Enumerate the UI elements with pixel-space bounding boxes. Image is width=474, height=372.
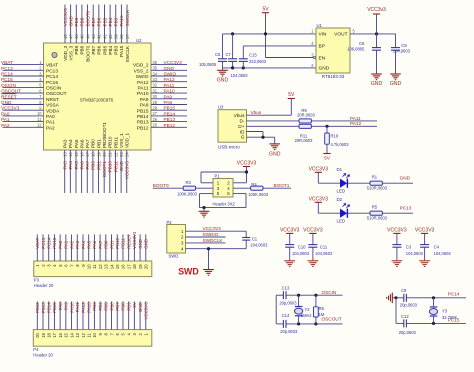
wire net PA2 to U2 pin 12 [3,126,44,128]
svg-text:10: 10 [92,332,97,337]
svg-text:14: 14 [68,152,73,157]
svg-text:PB3: PB3 [114,45,119,54]
resistor R9 [299,119,311,123]
svg-text:ID: ID [240,129,245,135]
svg-text:R10: R10 [331,133,339,138]
ground symbol below C11 [308,261,319,267]
capacitor C11 [308,245,317,261]
pin name VDD_2 [133,63,149,69]
pin number 7 [39,94,42,99]
svg-text:VCC3V3: VCC3V3 [303,228,323,234]
pin number 15 of P3 [115,264,120,269]
svg-text:RESET: RESET [126,234,131,249]
svg-text:PB12: PB12 [137,125,149,131]
svg-text:VSSA: VSSA [46,103,60,109]
ground symbol below C10 [284,261,295,267]
wire P2 pin2 SWDIO [186,236,226,238]
capacitor C13 [283,291,286,299]
wire OSCOUT rail [276,323,342,325]
net label PC13 at P3 [41,237,46,249]
svg-text:P3: P3 [34,278,40,283]
wire net PB6 to U2 pin 42 [98,5,100,44]
wire P3 pin 19 [139,234,141,261]
pin number 9 [39,106,42,111]
net label RESET at P3 [126,234,131,249]
wire P3 pin 9 [82,234,84,261]
net label PA3 [63,161,68,170]
pin name PA7 [85,139,90,148]
net label PC15 [1,77,13,82]
wire R3 to P1 pin3 [196,187,213,189]
svg-text:VCC3V3: VCC3V3 [309,197,329,203]
svg-text:PA12: PA12 [81,302,86,313]
pin name VSS_3 [68,45,73,60]
svg-text:D2: D2 [337,197,343,202]
svg-text:GND: GND [119,160,124,171]
svg-text:PA2: PA2 [69,240,74,249]
svg-text:36: 36 [153,60,158,65]
svg-text:13: 13 [63,152,68,157]
svg-text:RESET: RESET [1,94,17,99]
net label BOOT0 [85,10,90,26]
svg-text:45: 45 [80,34,85,39]
svg-text:PC13: PC13 [46,68,58,74]
pin number 18 of P3 [132,264,137,269]
svg-text:PB0: PB0 [104,240,109,249]
svg-text:C1: C1 [252,237,258,242]
svg-text:11: 11 [37,117,42,122]
pin number 12 [37,123,42,128]
net label PB9 at P4 [126,302,131,311]
label C6 [359,41,365,46]
label R9 [301,108,307,113]
net label OSCIN [322,290,337,295]
svg-text:PB10: PB10 [108,161,113,173]
svg-text:46: 46 [74,34,79,39]
label R1 [372,175,378,180]
svg-text:VIN: VIN [319,31,328,37]
power symbol VCC3V3 at D2 [309,197,329,214]
net label PA7 at P3 [98,240,103,249]
pin name PB6 [97,45,102,54]
net label PA12 at P4 [81,302,86,313]
svg-text:43: 43 [91,34,96,39]
value 20p,0603 for C14 [280,329,298,334]
svg-text:PB8: PB8 [80,45,85,54]
pin name PB3 [114,45,119,54]
svg-text:C3: C3 [406,244,412,249]
net label BOOT1 [274,183,290,188]
pin number 29 [153,100,158,105]
svg-text:G: G [241,135,245,141]
ground label GND USB [269,151,281,157]
svg-text:1M: 1M [319,312,325,317]
pin number 19 [96,152,101,157]
pin name VDD_1 [125,132,130,148]
net label PA8 [164,100,173,105]
net label PA9 [164,94,173,99]
svg-text:BOOT0: BOOT0 [85,45,90,61]
pin number 34 [153,71,158,76]
pin number 13 of P3 [104,264,109,269]
svg-text:GND: GND [138,239,143,249]
net label BOOT0 [153,183,169,188]
text SWD red [178,266,199,276]
pin number 4 [311,41,314,46]
svg-text:PA0: PA0 [1,111,10,116]
label C15 [249,53,257,58]
svg-text:VBAT: VBAT [1,60,13,65]
pin number 3 of P3 [47,264,52,267]
svg-text:PB0: PB0 [91,139,96,148]
net label PB15 [164,106,176,111]
pin number 2 of P1 [227,180,230,185]
value 104,0603 for C8 [393,48,411,53]
svg-text:20: 20 [102,152,107,157]
net label PA11 [164,83,175,88]
svg-text:15: 15 [74,152,79,157]
svg-text:PB10: PB10 [115,238,120,249]
svg-text:20p,0603: 20p,0603 [279,301,297,306]
wire ID down to G net [247,132,264,138]
svg-text:Header 20: Header 20 [33,352,53,357]
svg-text:18: 18 [47,332,52,337]
pin number 1 [311,29,314,34]
pin name PA8 [140,103,149,109]
wire P4 pin 21 [36,301,38,329]
svg-text:D-: D- [239,119,244,125]
svg-text:106,0805: 106,0805 [347,46,365,51]
net label PB1 [96,161,101,170]
pin name PA15 [119,45,124,57]
svg-text:PA9: PA9 [164,94,173,99]
net label PB7 at P4 [115,302,120,311]
svg-text:25: 25 [153,123,158,128]
wire P4 pin 23 [48,301,50,329]
pin number 38 [119,34,124,39]
wire P3 pin 18 [133,234,135,261]
svg-text:23: 23 [119,152,124,157]
wire P3 pin 3 [48,234,50,261]
LED D1 [340,174,350,188]
wire VCC3V3 to D1 [318,182,340,184]
svg-text:20: 20 [35,332,40,337]
net label PC14 [448,292,460,297]
wire net SWIO from U2 pin 34 [151,75,187,77]
pin number 16 [79,152,84,157]
svg-text:510R,0603: 510R,0603 [367,185,388,190]
svg-text:PA5: PA5 [86,240,91,249]
net label PB6 at P4 [109,302,114,311]
svg-text:PB14: PB14 [137,114,149,120]
pin number 40 [108,34,113,39]
ground label GND below C8 [390,81,402,87]
header P3 body [34,261,152,277]
wire R9 to PA11 [312,120,378,122]
svg-text:PA11: PA11 [75,302,80,313]
pin number 3 of P1 [217,186,220,191]
junction dot on D+ line [325,125,328,128]
resistor R11 [299,124,311,128]
wire P3 pin 5 [59,234,61,261]
svg-text:C11: C11 [320,244,328,249]
svg-text:VCC3v3: VCC3v3 [367,7,386,13]
wire net VBAT to U2 pin 1 [3,64,44,66]
svg-text:PB5: PB5 [102,17,107,26]
label R3 [186,180,192,185]
svg-text:PA9: PA9 [140,97,149,103]
svg-text:PB10: PB10 [108,136,113,148]
net label PC15 [448,317,460,322]
designator U1 [317,23,323,28]
pin name SWIO [136,74,149,80]
wire P1 pin1 loop [201,172,247,183]
svg-text:C14: C14 [282,313,290,318]
svg-text:PB1: PB1 [109,240,114,249]
svg-text:PA10: PA10 [164,89,176,94]
ground symbol GND near regulator [217,68,228,76]
net label GND at P4 [138,302,143,312]
net label GND at P3 [144,239,149,249]
svg-text:GND: GND [390,81,402,87]
pin name PA6 [79,139,84,148]
resistor R1 [370,181,382,185]
svg-text:GND: GND [164,66,175,71]
value 20R,0603 for R11 [295,138,313,143]
svg-text:18: 18 [91,152,96,157]
svg-text:Header 3X2: Header 3X2 [213,201,236,206]
value 105,0805 [199,62,217,67]
label Y2 [305,307,311,312]
svg-text:VCC3V3: VCC3V3 [144,302,149,320]
net label PA12 [164,77,176,82]
header P4 body [33,330,152,347]
svg-text:VCC3V3: VCC3V3 [237,161,257,167]
svg-text:17: 17 [126,264,131,269]
net label PB12 at P4 [35,302,40,313]
svg-text:OSCOUT: OSCOUT [322,316,342,321]
svg-text:PA1: PA1 [46,120,55,126]
net label 5V at P4 [132,302,137,307]
pin number 15 of P4 [64,332,69,337]
wire net GND from U2 pin 23 [120,150,122,193]
pin number 19 of P4 [41,332,46,337]
svg-text:20R,0603: 20R,0603 [295,138,313,143]
value 104,0603 for C1 [250,243,268,248]
header P2 body [167,225,186,254]
pin name BOOT0 [85,45,90,61]
svg-text:42: 42 [97,34,102,39]
svg-text:10: 10 [86,264,91,269]
svg-text:PC14: PC14 [1,72,13,77]
svg-text:14: 14 [69,332,74,337]
svg-text:VCC3V3: VCC3V3 [132,231,137,249]
pin number 12 of P3 [98,264,103,269]
svg-text:PA3: PA3 [63,139,68,148]
net label VCC3V3 [63,8,68,27]
pin name PB5 [102,45,107,54]
svg-text:PA4: PA4 [68,161,73,170]
wire P4 pin 25 [59,301,61,329]
pin number 18 [91,152,96,157]
svg-text:VCC3V3: VCC3V3 [415,228,435,234]
pin number 4 of P3 [52,264,57,267]
svg-text:PA12: PA12 [137,80,149,86]
pin number 1 of P2 [181,229,184,234]
svg-text:BOOT0: BOOT0 [85,10,90,26]
pin number 4 [39,77,42,82]
svg-text:PB4: PB4 [108,45,113,54]
svg-text:VCC3V3: VCC3V3 [125,161,130,180]
wire OSCIN rail [276,294,342,296]
svg-text:13: 13 [104,264,109,269]
svg-text:PA8: PA8 [58,302,63,311]
label C5 [215,52,221,57]
svg-text:37: 37 [125,34,130,39]
wire net PB11 from U2 pin 22 [114,150,116,193]
wire P4 pin 37 [128,301,130,329]
svg-text:28: 28 [153,106,158,111]
svg-text:PA9: PA9 [64,302,69,311]
capacitor C7 [228,34,237,68]
svg-text:PB6: PB6 [97,45,102,54]
net label PA10 at P4 [69,302,74,313]
label C9 [401,288,407,293]
ground symbol P2 [203,270,214,276]
wire P1 pin2 [233,182,247,184]
svg-text:VOUT: VOUT [334,31,347,37]
pin number 1 of P3 [35,264,40,267]
capacitor C4 [420,245,429,261]
ground symbol P1 [199,208,210,217]
svg-text:VCC3V3: VCC3V3 [164,60,183,65]
svg-text:Y3: Y3 [442,309,448,314]
wire net PA5 from U2 pin 15 [75,150,77,193]
wire P3 pin 2 [42,234,44,261]
svg-text:VDD_3: VDD_3 [63,45,68,61]
svg-text:GND: GND [1,100,12,105]
wire net GND to U2 pin 47 [70,5,72,44]
capacitor C5 [218,34,227,68]
pin number 46 [74,34,79,39]
svg-text:Vbus: Vbus [234,113,246,119]
pin number 7 of P3 [69,264,74,267]
svg-text:PB3: PB3 [114,17,119,26]
wire net VCC3V3 to U2 pin 9 [3,109,44,111]
svg-text:12: 12 [98,264,103,269]
svg-text:VBAT: VBAT [46,63,58,69]
net label PB12 [164,123,176,128]
svg-text:GND: GND [144,239,149,249]
svg-text:41: 41 [102,34,107,39]
pin number 45 [80,34,85,39]
svg-text:R5: R5 [372,205,378,210]
net label GND [68,15,73,26]
pin name PA2 [46,125,55,131]
svg-text:PB12: PB12 [164,123,176,128]
net label PB1 at P3 [109,240,114,249]
net label PA15 at P4 [86,302,91,313]
net label VBAT [1,60,13,65]
svg-text:C8: C8 [401,43,407,48]
svg-text:PA10: PA10 [69,302,74,313]
pin name PA12 [137,80,149,86]
pin number 10 [37,111,42,116]
wire BP to C15 [243,46,316,59]
pin name PA9 [140,97,149,103]
svg-text:47: 47 [68,34,73,39]
pin name PB14 [137,114,149,120]
junction dot P1 ground [202,206,205,209]
svg-text:VDD_1: VDD_1 [125,132,130,148]
net label PB14 [164,111,176,116]
svg-text:PC14: PC14 [448,292,460,297]
svg-text:104,0603: 104,0603 [434,251,452,256]
svg-text:PB5: PB5 [104,302,109,311]
value Header 20 for P4 [33,352,53,357]
wire net VCC3V3 from U2 pin 24 [126,150,128,193]
wire net PA1 to U2 pin 11 [3,121,44,123]
svg-text:PA4: PA4 [81,240,86,249]
net label PA11 [350,116,361,121]
net label GND [1,100,12,105]
svg-text:PC13: PC13 [1,66,13,71]
svg-text:PC14: PC14 [46,74,58,80]
capacitor C15 [239,59,248,68]
crystal Y3 [429,298,437,324]
wire net PA3 from U2 pin 13 [64,150,66,193]
svg-text:C6: C6 [359,41,365,46]
svg-text:P4: P4 [33,347,39,352]
value 104,0603 for C7 [231,73,249,78]
wire P4 pin 30 [88,301,90,329]
svg-text:STM32F103C8T6: STM32F103C8T6 [80,97,114,102]
svg-text:104,0603: 104,0603 [250,243,268,248]
pin number 2 of P4 [138,332,143,335]
pin name PB10 [108,136,113,148]
pin name PB0 [91,139,96,148]
LED D2 [340,204,350,218]
wire net PB1 from U2 pin 19 [98,150,100,193]
pin number 20 of P3 [144,264,149,269]
svg-text:PC15: PC15 [1,77,13,82]
wire P2 pin4 to ground [186,249,247,269]
pin number 6 of P4 [115,332,120,335]
svg-text:GND: GND [68,15,73,26]
capacitor C10 [285,245,294,261]
wire VCC3V3 to D2 [318,212,340,214]
svg-text:48: 48 [63,34,68,39]
junction dots crystal 1 [297,294,318,326]
net label SWCLK [125,9,130,27]
wire net PB14 from U2 pin 27 [151,115,187,117]
pin number 47 [68,34,73,39]
value Header 3X2 [213,201,236,206]
pin name PB2/BOOT1 [102,122,107,148]
net label PB3 at P4 [92,302,97,311]
pin number 14 [68,152,73,157]
svg-text:PC15: PC15 [52,237,57,249]
svg-text:PA12: PA12 [350,121,362,126]
pin name VSSA [46,103,60,109]
svg-text:VCC3V3: VCC3V3 [309,167,329,173]
pin number 41 [102,34,107,39]
net label OSCIN [1,83,16,88]
svg-text:PA11: PA11 [350,116,361,121]
svg-text:U1: U1 [317,23,323,28]
capacitor C6 [372,34,381,74]
wire VOUT to VCC3v3 [350,33,396,35]
